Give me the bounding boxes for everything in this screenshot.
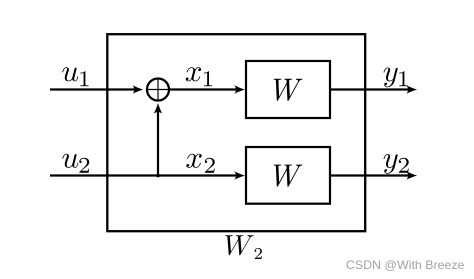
svg-text:CSDN @With Breeze: CSDN @With Breeze	[346, 259, 465, 273]
